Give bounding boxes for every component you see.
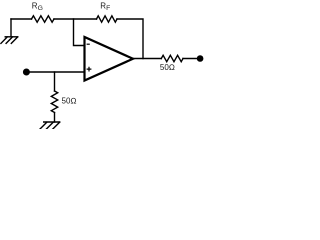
wire junction drop to inverting input: [74, 19, 85, 46]
resistor 50 ohm shunt: [51, 91, 57, 112]
svg-text:RG: RG: [32, 1, 43, 12]
output terminal dot: [197, 55, 204, 62]
input terminal dot: [23, 69, 30, 76]
resistor RF: [97, 16, 118, 22]
wire RF to feedback corner down to output node: [117, 19, 143, 59]
wire stub to top-left ground: [10, 19, 12, 37]
wire to output terminal: [183, 58, 198, 60]
wire shunt drop: [54, 72, 56, 91]
svg-text:50Ω: 50Ω: [62, 97, 77, 106]
ground top-left chassis: [1, 37, 18, 44]
ground bottom chassis: [40, 122, 60, 129]
svg-text:50Ω: 50Ω: [160, 63, 175, 72]
wire output: [133, 58, 161, 60]
svg-text:RF: RF: [100, 1, 110, 12]
wire input to noninverting input: [27, 71, 85, 73]
wire resistor to bottom ground: [54, 113, 56, 123]
wire top rail left segment: [11, 18, 32, 20]
wire RG to RF: [54, 18, 97, 20]
resistor RG: [32, 16, 55, 22]
resistor 50 ohm output: [161, 55, 183, 61]
op-amp U1: [85, 37, 134, 81]
